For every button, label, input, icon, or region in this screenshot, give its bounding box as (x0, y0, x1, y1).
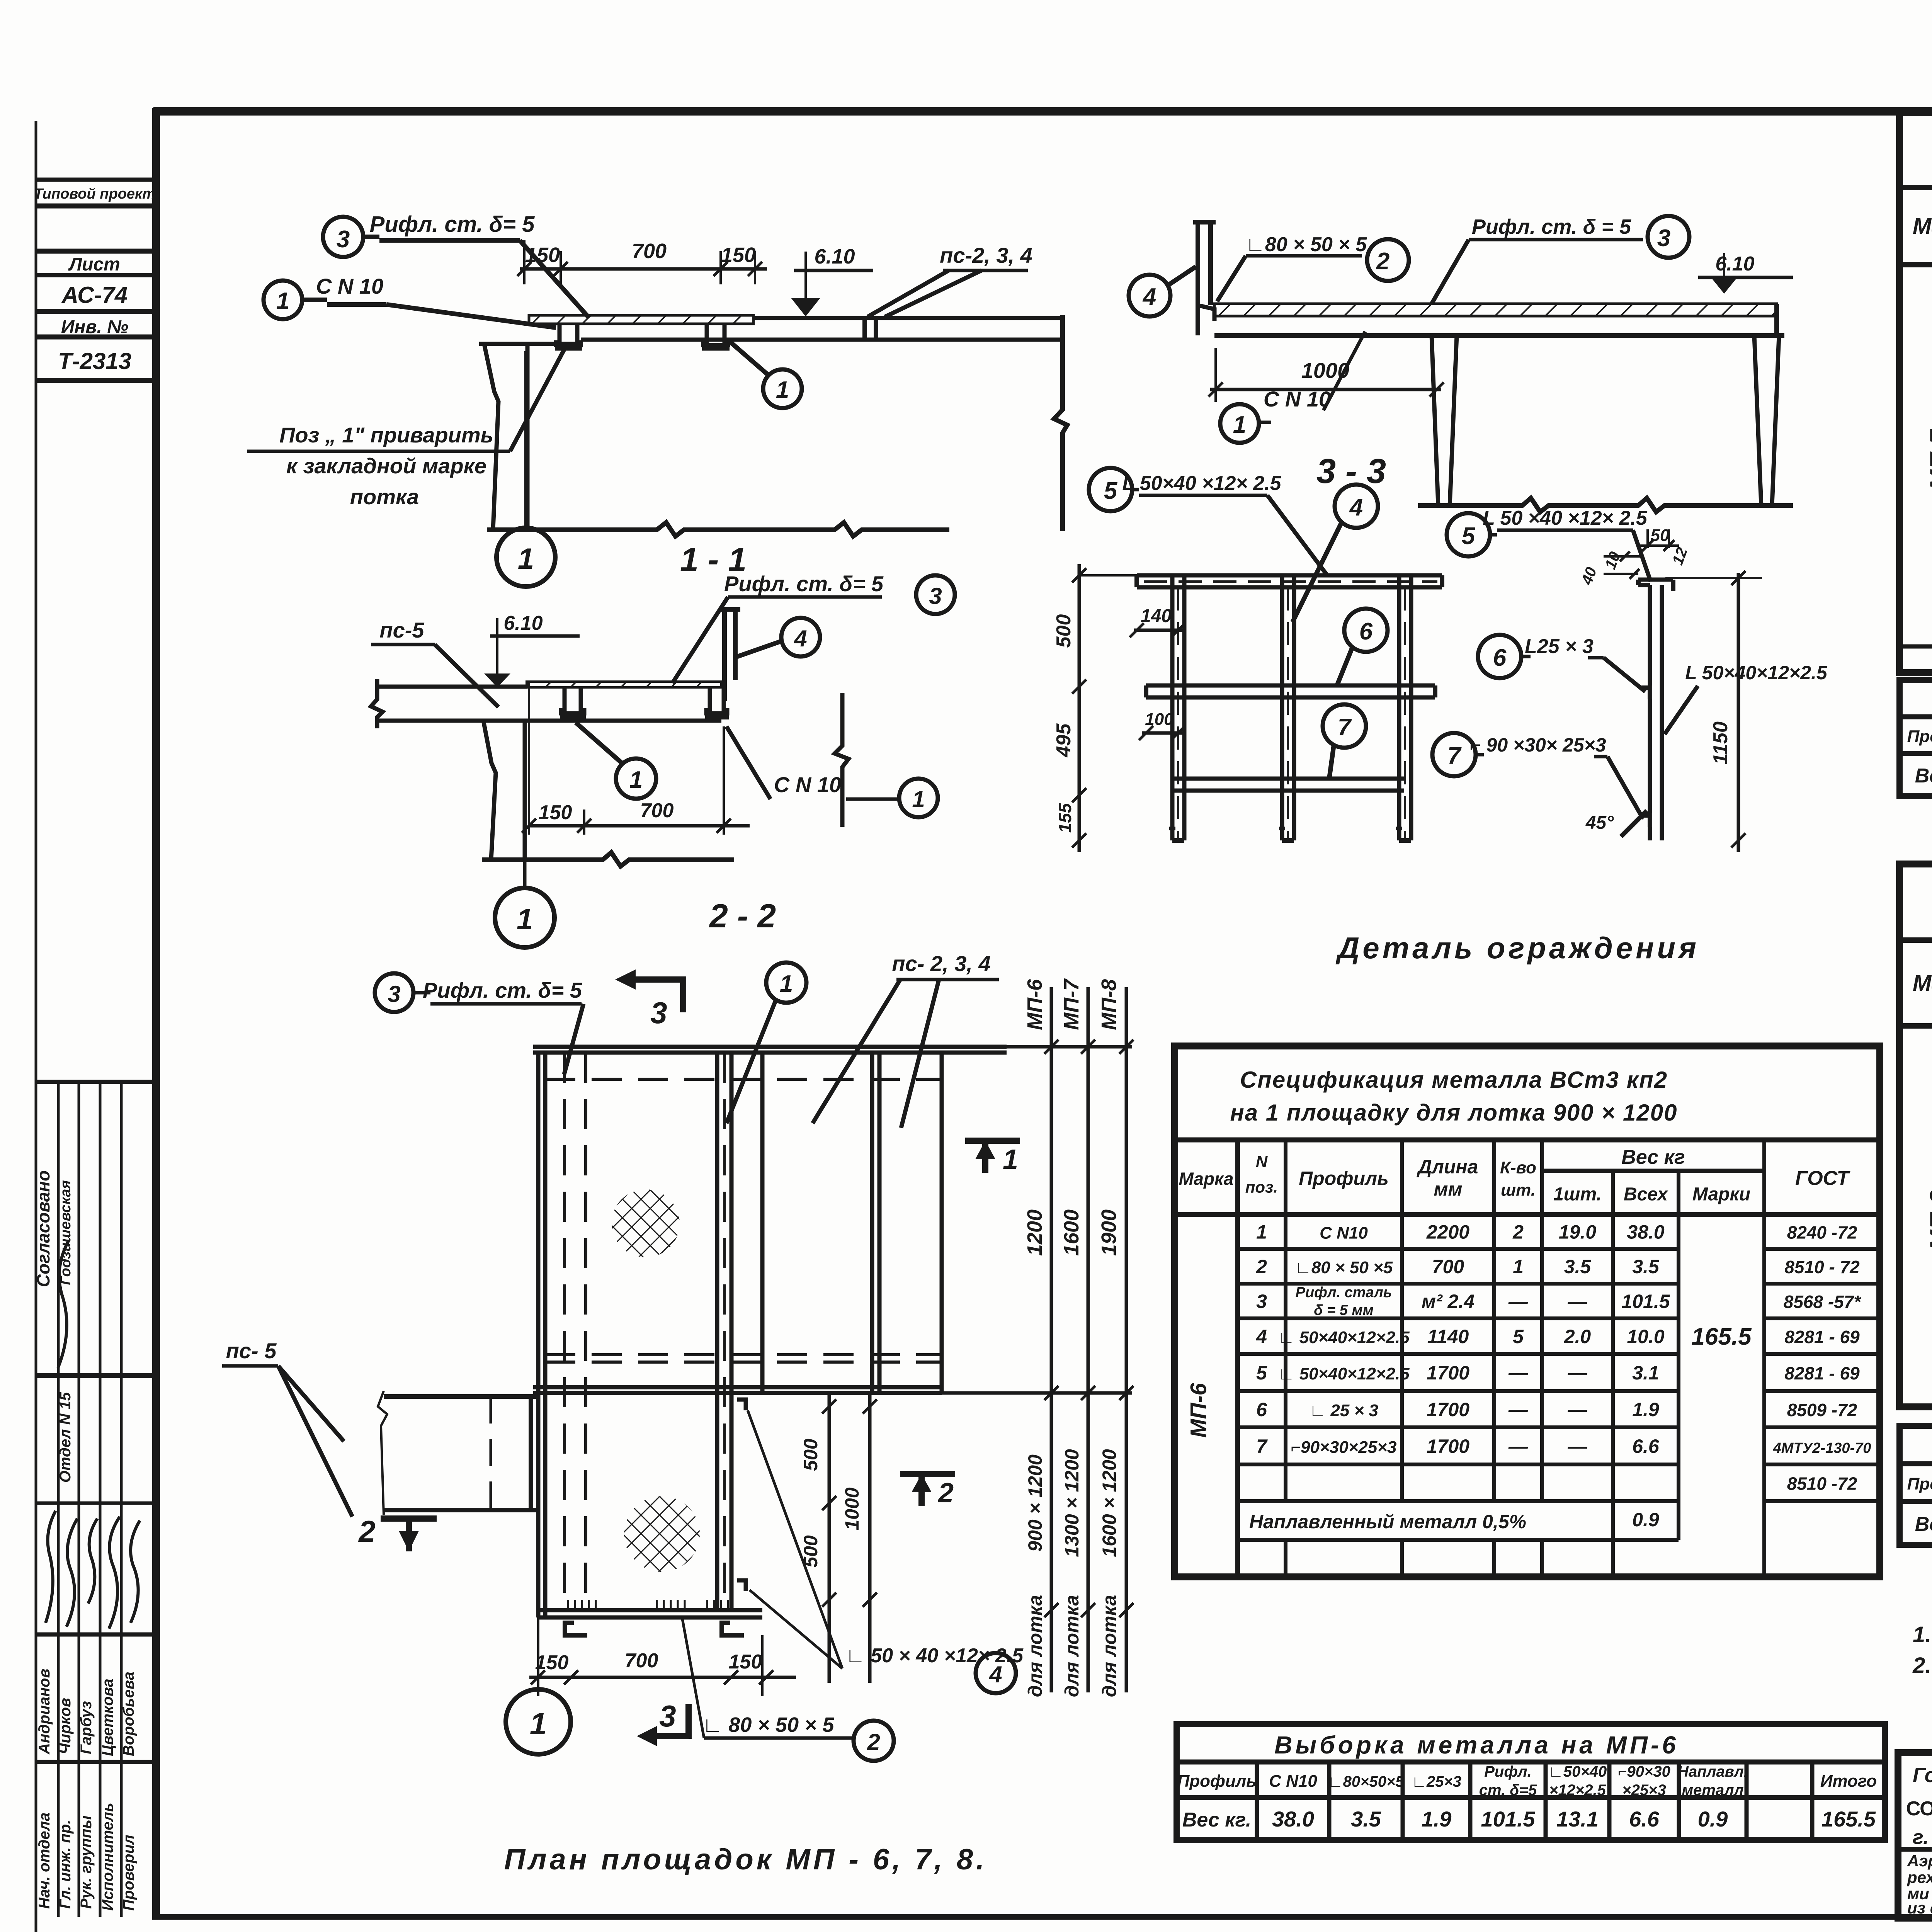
svg-text:пс- 2, 3, 4: пс- 2, 3, 4 (892, 951, 990, 976)
svg-text:1шт.: 1шт. (1553, 1184, 1602, 1205)
svg-text:1.9: 1.9 (1422, 1807, 1452, 1831)
svg-text:19.0: 19.0 (1559, 1221, 1597, 1243)
svg-text:Рифл. ст. δ= 5: Рифл. ст. δ= 5 (423, 978, 582, 1002)
vyborka table МП-7 values (1915, 763, 1932, 787)
svg-text:2: 2 (1376, 248, 1389, 275)
plan section mark 3 top (636, 976, 686, 983)
svg-text:L25 × 3: L25 × 3 (1525, 635, 1594, 658)
svg-text:3.5: 3.5 (1632, 1256, 1660, 1277)
svg-text:мм: мм (1434, 1179, 1463, 1200)
sidebar lower stamp grid (36, 1082, 153, 1917)
vyborka table МП-6 values (1182, 1807, 1876, 1831)
plan hatch patch lower (624, 1496, 700, 1572)
spec table МП-8 outer frame (1900, 864, 1932, 1407)
fence middle rail (1146, 684, 1435, 688)
fence dim 140 (1134, 629, 1182, 632)
svg-text:Вес кг.: Вес кг. (1182, 1809, 1251, 1831)
svg-text:1: 1 (780, 971, 793, 997)
svg-text:2 - 2: 2 - 2 (709, 898, 776, 935)
spec table МП-8 grid lines (1900, 940, 1932, 1407)
svg-text:1140: 1140 (1427, 1326, 1469, 1347)
plan middle double vertical (715, 1053, 719, 1610)
svg-text:1600 × 1200: 1600 × 1200 (1099, 1449, 1120, 1557)
svg-text:к закладной марке: к закладной марке (286, 454, 486, 478)
section 2-2 channel left (561, 687, 584, 713)
svg-text:—: — (1568, 1362, 1588, 1384)
svg-text:5: 5 (1104, 478, 1118, 504)
spec table МП-6 header texts (1179, 1146, 1850, 1205)
svg-text:МП-6: МП-6 (1023, 979, 1046, 1030)
svg-text:×12×2.5: ×12×2.5 (1549, 1782, 1606, 1799)
svg-text:Рифл. сталь: Рифл. сталь (1296, 1284, 1392, 1301)
section 1-1 big marker circle 1 (524, 351, 528, 528)
svg-text:150: 150 (539, 801, 572, 824)
svg-text:Т-2313: Т-2313 (58, 348, 131, 374)
fence leader circle 6 right (1478, 635, 1521, 678)
svg-text:0.9: 0.9 (1632, 1509, 1659, 1531)
svg-text:Спецификация металла ВСт3 кп: Спецификация металла ВСт3 кп2 (1240, 1067, 1668, 1093)
section 3-3 railing angle post (1196, 222, 1200, 335)
svg-text:5: 5 (1256, 1362, 1267, 1384)
vyborka table МП-6 grid (1177, 1762, 1885, 1840)
svg-text:∟50×40: ∟50×40 (1548, 1763, 1607, 1780)
svg-text:×25×3: ×25×3 (1622, 1782, 1666, 1799)
svg-text:рехкоридорные с размера-: рехкоридорные с размера- (1907, 1868, 1932, 1886)
svg-text:—: — (1508, 1291, 1528, 1312)
svg-text:2: 2 (867, 1729, 880, 1755)
fence leader circle 6 (1344, 609, 1388, 652)
svg-text:Профиль: Профиль (1177, 1772, 1257, 1791)
svg-text:МП-7: МП-7 (1060, 978, 1083, 1030)
fence top rail (1137, 573, 1442, 578)
svg-text:1700: 1700 (1427, 1435, 1469, 1457)
vyborka table МП-7 grid (1900, 717, 1932, 796)
svg-text:150: 150 (535, 1651, 569, 1674)
sidebar names column (36, 1668, 137, 1756)
svg-text:4МТУ2-130-70: 4МТУ2-130-70 (1773, 1440, 1871, 1456)
svg-text:2. Все сварные швы h= 4мм.: 2. Все сварные швы h= 4мм. (1912, 1653, 1932, 1678)
section 2-2 leader circle 1 mid (616, 759, 656, 799)
svg-text:1700: 1700 (1427, 1399, 1469, 1420)
svg-text:4: 4 (1142, 284, 1156, 310)
section 2-2 column below (483, 721, 496, 860)
svg-text:1: 1 (1003, 1144, 1018, 1175)
svg-text:4: 4 (794, 626, 807, 651)
svg-text:8510 - 72: 8510 - 72 (1784, 1257, 1860, 1277)
fence leader circle 7 right (1432, 733, 1476, 776)
svg-text:5: 5 (1513, 1326, 1524, 1347)
svg-text:N: N (1256, 1153, 1268, 1171)
svg-text:1300 × 1200: 1300 × 1200 (1061, 1449, 1083, 1557)
svg-text:Выборка металла на МП-6: Выборка металла на МП-6 (1274, 1731, 1679, 1759)
svg-text:2: 2 (358, 1514, 375, 1548)
plan section mark T1 (965, 1138, 1020, 1144)
svg-text:1: 1 (776, 377, 789, 403)
section 1-1 slab top right (753, 316, 1063, 320)
svg-text:6.10: 6.10 (1715, 253, 1754, 275)
svg-text:поз.: поз. (1245, 1178, 1278, 1196)
svg-text:∟ 50×40×12×2.5: ∟ 50×40×12×2.5 (1278, 1328, 1410, 1347)
svg-text:6.10: 6.10 (503, 612, 543, 634)
svg-text:Гарбуз: Гарбуз (78, 1701, 95, 1754)
section 2-2 left slab (377, 685, 527, 689)
svg-text:3: 3 (659, 1699, 676, 1733)
vyborka table МП-6 outer (1177, 1724, 1885, 1840)
svg-text:—: — (1568, 1291, 1588, 1312)
svg-text:пс-5: пс-5 (379, 618, 424, 642)
svg-text:Марка: Марка (1179, 1169, 1233, 1189)
svg-text:38.0: 38.0 (1272, 1807, 1314, 1831)
section 1-1 ground break line (487, 522, 949, 536)
spec table МП-6 outer frame (1175, 1046, 1880, 1577)
section 3-3 deck plate hatched (1214, 304, 1777, 316)
svg-text:495: 495 (1053, 723, 1075, 758)
plan section mark 3 bottom (685, 1704, 692, 1739)
fence lower rail (1172, 777, 1404, 781)
spec table МП-6 grid lines (1175, 1140, 1880, 1577)
section 2-2 big circle 1 (523, 860, 527, 888)
svg-text:10.0: 10.0 (1627, 1326, 1665, 1347)
svg-text:1150: 1150 (1709, 721, 1732, 765)
svg-text:Аэротенки-смесители четы-: Аэротенки-смесители четы- (1907, 1852, 1932, 1870)
svg-text:4: 4 (1349, 494, 1363, 521)
svg-text:Проверил: Проверил (120, 1835, 137, 1911)
svg-text:С N 10: С N 10 (1264, 387, 1331, 411)
svg-text:МП-7: МП-7 (1925, 429, 1932, 490)
svg-text:Рифл. ст. δ= 5: Рифл. ст. δ= 5 (370, 212, 535, 237)
svg-text:Рук. группы: Рук. группы (78, 1816, 95, 1909)
section 2-2 leader circle 4 (781, 618, 820, 656)
fence side clips (1641, 688, 1650, 699)
svg-text:150: 150 (729, 1651, 762, 1673)
svg-text:L 50×40 ×12× 2.5: L 50×40 ×12× 2.5 (1122, 472, 1281, 495)
svg-text:∟80 × 50 ×5: ∟80 × 50 ×5 (1295, 1258, 1393, 1277)
svg-text:∟80×50×5: ∟80×50×5 (1328, 1773, 1404, 1790)
svg-text:155: 155 (1055, 803, 1075, 833)
plan upper right rectangle (760, 1053, 765, 1393)
svg-text:Наплавл.: Наплавл. (1677, 1763, 1748, 1780)
svg-text:Нач. отдела: Нач. отдела (36, 1813, 53, 1909)
section 3-3 label C N10 circle 1 (1220, 404, 1259, 443)
svg-text:3.5: 3.5 (1351, 1807, 1381, 1831)
vyborka table МП-7 outer (1900, 680, 1932, 796)
section 3-3 legs (1432, 335, 1438, 505)
section 2-2 dim 150 700 (528, 682, 530, 835)
svg-text:Рифл. ст. δ = 5: Рифл. ст. δ = 5 (1472, 215, 1631, 238)
plan middle dashed horizontals (545, 1353, 942, 1356)
plan corner angle clips (737, 1400, 746, 1410)
plan right dim lines МП-6/7/8 (1023, 978, 1133, 1697)
section 2-2 railing angle post (722, 609, 727, 701)
svg-text:СОЮЗВОДОКАНАЛПРОЕКТ: СОЮЗВОДОКАНАЛПРОЕКТ (1906, 1798, 1932, 1820)
svg-text:—: — (1508, 1362, 1528, 1384)
vyborka table МП-6 header texts (1177, 1763, 1877, 1799)
svg-text:Гл. инж. пр.: Гл. инж. пр. (57, 1820, 74, 1909)
svg-text:АС-74: АС-74 (61, 282, 128, 308)
svg-text:3: 3 (929, 583, 942, 609)
section 1-1 right break edge (1054, 315, 1067, 531)
section 1-1 leader circle 1 (C N10) (264, 281, 302, 319)
svg-text:План площадок МП - 6, 7,: План площадок МП - 6, 7, 8. (504, 1843, 988, 1876)
svg-text:металл: металл (1682, 1782, 1744, 1799)
svg-text:С N 10: С N 10 (316, 274, 383, 298)
section 1-1 leader circle 3 (323, 217, 363, 257)
sidebar roles column (36, 1803, 137, 1911)
svg-text:6: 6 (1493, 645, 1507, 671)
svg-text:700: 700 (632, 240, 667, 263)
svg-text:1700: 1700 (1427, 1362, 1469, 1384)
svg-text:МП-6: МП-6 (1186, 1383, 1211, 1437)
plan dashed verticals (channel hidden) (563, 1053, 566, 1610)
svg-text:100: 100 (1145, 710, 1173, 729)
svg-text:δ = 5 мм: δ = 5 мм (1314, 1302, 1373, 1318)
svg-text:⌐ 90 ×30× 25×3: ⌐ 90 ×30× 25×3 (1469, 734, 1606, 756)
svg-text:1900: 1900 (1097, 1209, 1121, 1256)
svg-text:8281 - 69: 8281 - 69 (1784, 1327, 1860, 1347)
svg-text:1. Монтажные планы см. л.л.: 1. Монтажные планы см. л.л. АС-66,67. (1913, 1622, 1932, 1647)
svg-text:м² 2.4: м² 2.4 (1422, 1291, 1475, 1312)
svg-text:Воробьева: Воробьева (120, 1672, 137, 1756)
section 1-1 channel C N10 left (556, 324, 581, 345)
svg-text:для лотка: для лотка (1099, 1595, 1120, 1697)
section 3-3 dim 1000 (1210, 388, 1441, 391)
spec table МП-7 header texts (1913, 195, 1932, 259)
plan section mark 2 left (381, 1515, 437, 1522)
svg-text:на 1 площадку для лотка 900: на 1 площадку для лотка 900 × 1200 (1230, 1100, 1678, 1126)
section 1-1 (247, 212, 1067, 587)
svg-text:1600: 1600 (1060, 1209, 1083, 1256)
svg-text:1: 1 (1233, 412, 1246, 438)
svg-text:2: 2 (937, 1478, 954, 1509)
svg-text:С N 10: С N 10 (774, 772, 841, 797)
svg-text:6.6: 6.6 (1629, 1807, 1660, 1831)
fence posts (1170, 575, 1175, 840)
svg-text:8281 - 69: 8281 - 69 (1784, 1363, 1860, 1383)
plan weld tick marks (568, 1600, 728, 1609)
section 1-1 concrete column (484, 344, 498, 530)
svg-text:Инв. №: Инв. № (61, 317, 128, 337)
svg-text:4: 4 (1256, 1326, 1267, 1347)
svg-text:Рифл.: Рифл. (1484, 1763, 1532, 1780)
svg-text:6: 6 (1359, 618, 1373, 645)
svg-text:С N10: С N10 (1320, 1224, 1368, 1243)
spec table МП-6 data rows (1256, 1221, 1871, 1494)
svg-text:6.10: 6.10 (814, 245, 855, 268)
svg-text:Вес кг: Вес кг (1915, 1513, 1932, 1536)
svg-text:0.9: 0.9 (1698, 1807, 1728, 1831)
svg-text:Андрианов: Андрианов (36, 1668, 53, 1755)
svg-text:—: — (1508, 1435, 1528, 1457)
svg-text:Деталь ограждения: Деталь ограждения (1335, 931, 1699, 965)
svg-text:500: 500 (1053, 614, 1075, 648)
svg-text:шт.: шт. (1501, 1181, 1536, 1200)
plan section mark T2 (900, 1471, 955, 1477)
svg-text:С N10: С N10 (1269, 1772, 1317, 1791)
svg-text:3.5: 3.5 (1564, 1256, 1592, 1277)
svg-text:150: 150 (525, 243, 560, 267)
svg-text:8568 -57*: 8568 -57* (1784, 1292, 1862, 1312)
svg-text:700: 700 (625, 1650, 658, 1672)
plan top dashed horizontal (545, 1078, 942, 1081)
svg-text:6.6: 6.6 (1632, 1435, 1660, 1457)
svg-text:13.1: 13.1 (1556, 1807, 1599, 1831)
section 2-2 channel right (706, 687, 727, 713)
section 2-2 deck plate (527, 682, 721, 687)
svg-text:500: 500 (800, 1439, 821, 1471)
svg-text:2: 2 (1256, 1256, 1267, 1277)
fence leader circle 4 (1335, 485, 1378, 528)
section 1-1 channel C N10 middle (703, 324, 728, 345)
svg-text:Всех: Всех (1624, 1184, 1668, 1205)
fence dim 100 (1142, 731, 1182, 735)
svg-text:7: 7 (1447, 743, 1462, 769)
svg-text:для лотка: для лотка (1061, 1595, 1083, 1697)
svg-text:8510 -72: 8510 -72 (1787, 1474, 1857, 1494)
svg-text:38.0: 38.0 (1627, 1221, 1665, 1243)
spec table МП-7 grid lines (1900, 187, 1932, 673)
svg-text:для лотка: для лотка (1024, 1595, 1046, 1697)
svg-text:2: 2 (1512, 1221, 1524, 1243)
plan leader circle 1 top (766, 963, 806, 1003)
svg-text:⌐90×30: ⌐90×30 (1618, 1763, 1670, 1780)
svg-text:165.5: 165.5 (1821, 1807, 1876, 1831)
svg-text:1.9: 1.9 (1632, 1399, 1659, 1420)
svg-text:∟25×3: ∟25×3 (1412, 1773, 1461, 1790)
svg-text:Профиль: Профиль (1907, 727, 1932, 746)
svg-text:1: 1 (276, 288, 289, 315)
svg-text:700: 700 (640, 799, 674, 822)
svg-text:1000: 1000 (841, 1487, 863, 1530)
svg-text:3: 3 (337, 226, 350, 253)
svg-text:из сборного железобетона: из сборного железобетона (1907, 1899, 1932, 1917)
svg-text:МП-8: МП-8 (1097, 979, 1121, 1030)
plan left edge (536, 1053, 541, 1617)
plan bottom edge with welds (538, 1608, 762, 1612)
fence leader circle 5 right (1447, 513, 1490, 556)
section 1-1 dim line 150-700-150 (520, 267, 767, 271)
svg-text:7: 7 (1256, 1435, 1268, 1457)
title block аэротенки annotation (1907, 1852, 1932, 1917)
svg-text:1: 1 (912, 786, 925, 812)
fence leader circle 7 (1323, 704, 1366, 748)
svg-text:—: — (1568, 1399, 1588, 1420)
vyborka table МП-8 outer (1900, 1426, 1932, 1545)
svg-text:∟80 × 50 × 5: ∟80 × 50 × 5 (1245, 233, 1367, 256)
section 3-3 leader circle 4 (1129, 275, 1170, 316)
svg-text:101.5: 101.5 (1621, 1291, 1670, 1312)
svg-text:101.5: 101.5 (1481, 1807, 1535, 1831)
svg-text:1200: 1200 (1023, 1209, 1046, 1256)
svg-text:3: 3 (388, 981, 400, 1007)
svg-text:1: 1 (1256, 1221, 1267, 1243)
svg-text:Госстрой: Госстрой (1913, 1764, 1932, 1787)
svg-text:Марка: Марка (1913, 214, 1932, 239)
svg-text:Лист: Лист (68, 254, 120, 275)
sidebar signature squiggles (46, 1240, 140, 1629)
svg-text:165.5: 165.5 (1691, 1323, 1752, 1350)
svg-text:L 50 ×40 ×12× 2.5: L 50 ×40 ×12× 2.5 (1483, 507, 1648, 529)
plan площадок МП-6,7,8 (533, 1047, 1132, 1617)
svg-text:5: 5 (1462, 523, 1476, 549)
section 3-3 (1129, 215, 1793, 512)
fence dim 1150 (1737, 573, 1740, 852)
section 2-2 ground break (482, 852, 734, 866)
section 1-1 slab bottom (581, 338, 1063, 342)
svg-text:Отдел N 15: Отдел N 15 (57, 1392, 74, 1483)
svg-text:⌐90×30×25×3: ⌐90×30×25×3 (1291, 1438, 1396, 1457)
svg-text:1: 1 (629, 767, 643, 793)
plan big circle 1 bottom (506, 1689, 571, 1754)
svg-text:8509 -72: 8509 -72 (1787, 1400, 1857, 1420)
svg-text:140: 140 (1141, 606, 1172, 626)
fence leader circle 5 left (1089, 468, 1132, 511)
spec table МП-8 header texts (1913, 948, 1932, 1016)
svg-text:900 × 1200: 900 × 1200 (1024, 1454, 1046, 1552)
svg-text:150: 150 (721, 243, 756, 267)
svg-text:L 50×40×12×2.5: L 50×40×12×2.5 (1685, 662, 1828, 684)
svg-text:1: 1 (1513, 1256, 1524, 1277)
svg-text:Марки: Марки (1692, 1184, 1750, 1205)
title block dividers (1898, 1753, 1932, 1918)
section 2-2 right break line (835, 693, 849, 827)
svg-text:К-во: К-во (1500, 1158, 1536, 1177)
section 1-1 deck plate (hatched) (529, 315, 753, 324)
svg-text:45°: 45° (1585, 813, 1614, 833)
svg-text:Типовой проект: Типовой проект (34, 186, 155, 202)
svg-text:пс- 5: пс- 5 (226, 1338, 277, 1363)
svg-text:3: 3 (650, 996, 667, 1030)
svg-text:2.0: 2.0 (1564, 1326, 1591, 1347)
title block outer (1898, 1753, 1932, 1918)
svg-text:Чирков: Чирков (57, 1698, 74, 1754)
fence left dim line (1078, 564, 1081, 852)
svg-text:Профиль: Профиль (1299, 1168, 1389, 1189)
svg-text:Исполнитель: Исполнитель (99, 1803, 116, 1911)
vyborka table МП-8 grid (1900, 1464, 1932, 1545)
vyborka table МП-8 header texts (1907, 1466, 1932, 1502)
svg-text:∟ 50×40×12×2.5: ∟ 50×40×12×2.5 (1278, 1364, 1410, 1383)
plan middle platform edge (533, 1385, 942, 1389)
plan top deck edge (533, 1045, 1007, 1049)
plan inner dims 500 500 1000 (800, 1393, 877, 1683)
svg-text:Итого: Итого (1820, 1772, 1877, 1791)
svg-text:Согласовано: Согласовано (33, 1170, 53, 1287)
plan neighbour slab left (378, 1391, 538, 1515)
svg-text:1: 1 (530, 1706, 547, 1741)
fence post side view (1648, 585, 1652, 840)
svg-text:6: 6 (1256, 1399, 1267, 1420)
svg-text:пс-2, 3, 4: пс-2, 3, 4 (940, 243, 1032, 267)
svg-text:∟ 80 × 50 × 5: ∟ 80 × 50 × 5 (702, 1713, 834, 1736)
svg-text:50: 50 (1651, 526, 1670, 545)
svg-text:Рифл. ст. δ= 5: Рифл. ст. δ= 5 (724, 571, 884, 596)
svg-text:1000: 1000 (1301, 358, 1350, 383)
svg-text:Поз „ 1" приварить: Поз „ 1" приварить (279, 423, 493, 447)
svg-text:—: — (1508, 1399, 1528, 1420)
notes примечания (1912, 1578, 1932, 1739)
fence detail Деталь ограждения (1053, 468, 1828, 965)
svg-text:Вес кг: Вес кг (1621, 1146, 1685, 1168)
svg-text:Марка: Марка (1913, 971, 1932, 996)
svg-text:3.1: 3.1 (1632, 1362, 1659, 1384)
svg-text:4: 4 (989, 1662, 1002, 1687)
svg-text:3: 3 (1256, 1291, 1267, 1312)
svg-text:∟ 25 × 3: ∟ 25 × 3 (1309, 1401, 1378, 1420)
svg-text:700: 700 (1432, 1256, 1464, 1277)
sidebar stamp column (36, 121, 153, 1932)
svg-text:—: — (1568, 1435, 1588, 1457)
svg-text:Вес кг: Вес кг (1915, 765, 1932, 787)
